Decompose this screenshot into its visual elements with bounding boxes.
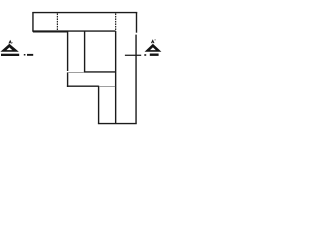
wire inner vertical x67 lower [67, 72, 69, 87]
wire bottom edge [98, 123, 137, 125]
wire band bottom edge [32, 30, 115, 32]
wire band bottom doubled edge segment [33, 31, 68, 33]
wire hidden dotted vertical x115 [115, 13, 117, 30]
node section arrow left triangle [0, 44, 18, 52]
wire low horizontal y86 gray segment [99, 86, 115, 88]
node section line right thick bar [150, 54, 159, 56]
wire mid horizontal y72 dark [84, 71, 116, 73]
node label A left [8, 40, 12, 44]
wire hidden dotted vertical x57 [56, 13, 58, 30]
node section line right dot [144, 54, 146, 56]
wire mid horizontal y72 gray segment [68, 72, 84, 74]
node section line right dash [125, 55, 141, 56]
wire right edge lower segment [135, 35, 137, 124]
wire top edge of part [32, 12, 137, 14]
wire low horizontal y86 dark [67, 85, 99, 87]
node section line left dash [27, 54, 33, 56]
node section arrow right triangle [145, 44, 162, 52]
node section line left dot [24, 54, 26, 56]
wire right edge upper segment [136, 12, 138, 33]
wire left edge of part [32, 12, 34, 32]
wire bottom-left vertical x98 [98, 86, 100, 124]
wire inner vertical x67 upper [67, 31, 69, 71]
wire inner vertical x84 [84, 31, 86, 72]
wire mid-right vertical x115 [115, 31, 117, 124]
node label A right [151, 39, 155, 43]
node section line left thick bar [1, 54, 19, 56]
